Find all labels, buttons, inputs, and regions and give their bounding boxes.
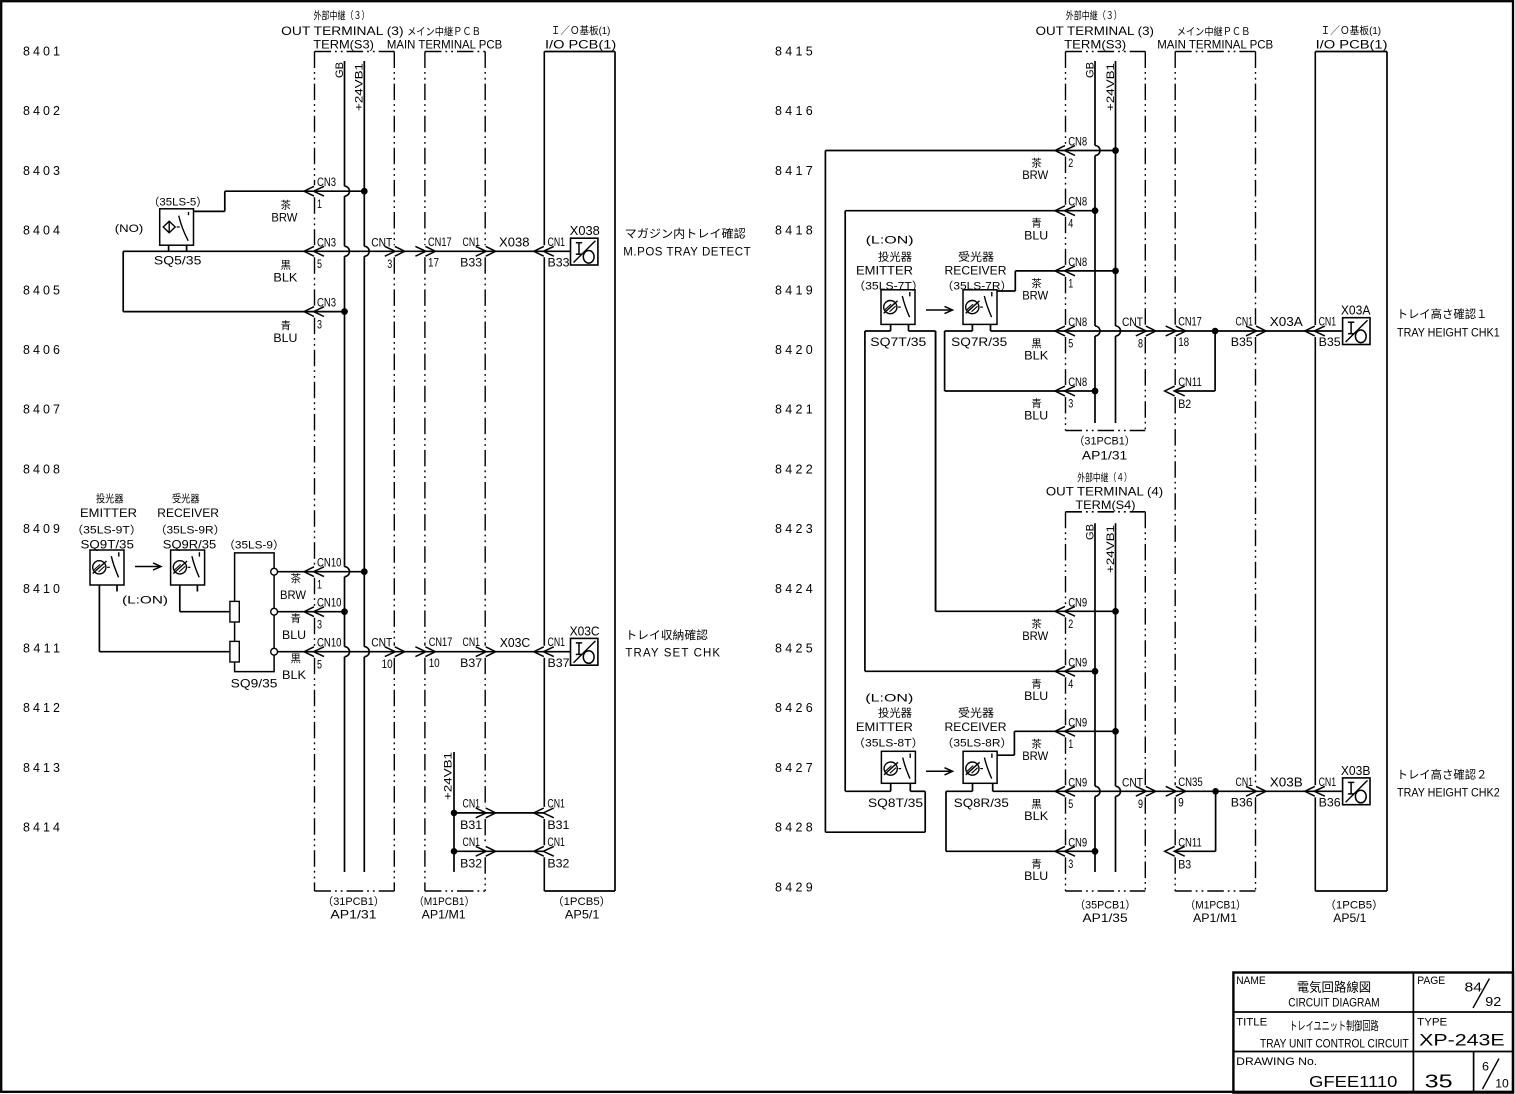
svg-text:B31: B31 [460,818,482,832]
net label X03B wire [1270,776,1303,790]
row label 8420 [775,343,813,357]
block label AP5/1 right [1333,911,1366,925]
connector arrow CN17 pin10 [415,647,435,657]
wire SQ5 BRW to CN3-1 [194,191,365,211]
header I/O PCB kanji right [1321,24,1382,37]
connector arrow CN1 B31 in [534,808,554,818]
net label X03A wire [1270,315,1304,329]
pin SQ5 bottom-right [186,245,188,251]
connector arrow CN1 B37 in [534,647,554,657]
header OUT TERMINAL (4) [1046,485,1163,499]
connector arrow CNT pin9 [1136,786,1156,796]
svg-text:CN1: CN1 [463,635,481,649]
svg-text:10: 10 [382,657,393,671]
svg-text:BLK: BLK [1024,809,1048,823]
splice connector SQ9 blue [230,601,239,622]
net label GB right upper [1084,62,1096,78]
pin label CN1 B37 out [460,635,482,670]
svg-text:TERM(S3): TERM(S3) [313,37,374,51]
wire color label BLK row p4 [1024,798,1048,823]
row label 8424 [775,582,813,596]
svg-text:CN10: CN10 [317,596,342,610]
svg-text:B37: B37 [548,656,570,670]
block OUT TERMINAL(4) TERM(S4) box [1066,512,1146,891]
header I/O PCB(1) right [1316,37,1388,51]
svg-text:TERM(S3): TERM(S3) [1064,37,1126,51]
connector arrow CN8 pin3 [1055,386,1075,396]
svg-text:（35LS-8R）: （35LS-8R） [941,737,1012,750]
svg-text:（31PCB1）: （31PCB1） [1074,435,1136,448]
svg-text:2: 2 [1068,156,1073,170]
svg-text:投光器: 投光器 [878,706,912,720]
pin label CN1 B32 out [460,835,482,871]
connector arrow CN10 pin5 [304,647,324,657]
svg-text:青: 青 [290,612,301,625]
svg-text:3: 3 [317,317,322,331]
svg-text:CN8: CN8 [1068,195,1087,209]
svg-text:CNT: CNT [1122,775,1144,789]
svg-text:EMITTER: EMITTER [856,264,913,278]
svg-text:AP5/1: AP5/1 [1333,911,1366,925]
svg-text:+24VB1: +24VB1 [443,752,455,800]
block label (M1PCB1) right [1185,899,1246,912]
svg-text:OUT TERMINAL (4): OUT TERMINAL (4) [1046,485,1163,499]
pin SQ8R right [992,783,994,791]
I/O port X03A [1343,318,1370,345]
label RECEIVER SQ8R [945,720,1007,734]
svg-text:TERM(S4): TERM(S4) [1075,498,1135,512]
svg-text:CN1: CN1 [1236,315,1254,329]
pin SQ9T right stub [116,585,118,592]
header OUT TERMINAL (3) left [281,24,403,38]
wire SQ9R blue down [180,585,235,612]
svg-text:CN1: CN1 [1236,775,1254,789]
connector arrow CN1 B32 in [534,846,554,856]
block OUT TERMINAL(3) TERM(S3) box right [1066,52,1146,431]
annotation TRAY HEIGHT CHK1 kanji [1397,307,1488,321]
emitter-to-receiver arrow SQ9 [135,563,161,570]
row label 8415 [775,45,813,59]
net line +24VB1 right lower [1112,523,1120,872]
junction dot B32 +24VB1 [451,848,458,855]
pin label CN1 B36 in [1319,775,1341,810]
pin label CN10 pin1 [317,556,342,592]
svg-text:Ｉ／Ｏ基板(1): Ｉ／Ｏ基板(1) [551,24,610,37]
title label TITLE [1236,1016,1267,1028]
svg-text:CN35: CN35 [1178,775,1203,789]
svg-text:DRAWING No.: DRAWING No. [1236,1056,1317,1068]
row label 8403 [23,164,60,178]
junction dot CN8-2 +24VB1 [1112,147,1119,154]
pin label CN17 pin18 [1178,315,1202,350]
svg-text:BRW: BRW [1022,749,1049,763]
svg-text:CN1: CN1 [547,835,565,849]
pin label CN11 B3 [1178,835,1202,871]
svg-text:5: 5 [1068,797,1073,811]
svg-text:CN8: CN8 [1068,255,1087,269]
terminal circle SQ9 pin3 [271,608,278,615]
row label 8408 [23,462,60,476]
svg-text:BLU: BLU [273,331,297,345]
svg-text:（M1PCB1）: （M1PCB1） [1185,899,1246,912]
svg-text:B32: B32 [460,857,482,871]
pin label CNT pin8 [1122,315,1144,351]
header MAIN TERMINAL PCB kanji left [407,25,481,38]
pin label CN1 B32 in [547,835,569,871]
svg-text:AP1/31: AP1/31 [1082,449,1128,463]
label (35LS-7R) [941,279,1012,292]
svg-text:CN9: CN9 [1068,835,1087,849]
junction dot CN3-3 GB [341,308,348,315]
block OUT TERMINAL(3) TERM(S3) box left [315,52,395,892]
I/O port X03B [1343,778,1370,805]
annotation TRAY HEIGHT CHK2 [1397,788,1500,800]
svg-text:CNT: CNT [371,636,393,650]
label (35LS-9R) [155,523,226,536]
svg-text:X038: X038 [499,236,530,250]
svg-text:X03C: X03C [500,636,531,650]
wire color label BLU row q5 [1024,397,1048,423]
junction dot CN9-1 +24VB1 [1112,728,1119,735]
splice connector SQ9 black [230,641,239,662]
svg-text:CN1: CN1 [463,235,481,249]
sensor SQ8T/35 emitter [881,751,915,783]
svg-text:CNT: CNT [1122,315,1144,329]
annotation M.POS TRAY DETECT kanji [625,226,747,240]
label (35LS-9) [223,539,285,552]
connector arrow CN1 B36 in [1305,786,1325,796]
net line GB left [341,61,349,872]
I/O port X03C [571,638,598,665]
label RECEIVER SQ9R [157,506,219,520]
row label 8407 [23,403,60,417]
connector arrow CN17 pin17 [415,246,435,256]
connector arrow CN1 B33 out [476,246,496,256]
svg-text:+24VB1: +24VB1 [354,63,366,111]
svg-text:B35: B35 [1231,335,1253,349]
pin label CN1 B31 out [460,796,482,832]
annotation TRAY SET CHK kanji [625,628,708,642]
svg-text:+24VB1: +24VB1 [1105,525,1117,573]
svg-text:AP1/35: AP1/35 [1083,911,1128,925]
svg-text:（35LS-9R）: （35LS-9R） [155,523,226,536]
label SQ9T/35 [81,538,135,552]
svg-text:I/O PCB(1): I/O PCB(1) [1316,37,1388,51]
svg-text:1: 1 [317,577,322,591]
label SQ8R/35 [954,796,1009,810]
pin label CN1 B35 out [1231,315,1253,350]
wire color label BLK row q4 [1024,338,1048,363]
wire SQ7R BRW up [997,271,1116,291]
net label +24VB1 right lower [1105,525,1117,573]
wire CN8-2 BRW long [825,151,1115,833]
svg-text:B3: B3 [1178,857,1191,871]
svg-text:I/O PCB(1): I/O PCB(1) [545,37,616,51]
svg-text:X03B: X03B [1341,764,1371,778]
pin label CN8 pin1 [1068,255,1087,291]
annotation TRAY HEIGHT CHK1 [1397,327,1500,339]
svg-text:X03B: X03B [1270,776,1303,790]
block label (1PCB5) left [552,895,611,908]
pin label CN8 pin5 [1068,315,1087,351]
wire SQ8R black down [946,850,1095,852]
wire CN3-5 BLK row B [123,250,570,252]
wire SQ7R blue branch [945,331,973,391]
svg-text:受光器: 受光器 [958,250,994,264]
svg-text:SQ8T/35: SQ8T/35 [868,796,923,810]
row label 8414 [23,821,60,835]
wire SQ8T blue feed [845,790,891,792]
label receiver kanji SQ7R [958,250,994,264]
pin label CN3 pin1 [317,175,336,211]
title sheet 35 [1425,1072,1453,1092]
label SQ5/35 [154,254,202,268]
net line GB right lower [1092,523,1100,872]
wire CN9-2 BRW row p1 [936,331,1116,611]
svg-text:（35LS-5）: （35LS-5） [148,196,208,209]
row label 8426 [775,701,813,715]
connector arrow CNT pin10 [385,647,405,657]
svg-text:BRW: BRW [1022,289,1049,303]
block label (35PCB1) [1074,899,1136,912]
svg-text:(L:ON): (L:ON) [866,235,914,247]
svg-text:9: 9 [1138,797,1143,811]
svg-text:B31: B31 [547,818,569,832]
row label 8411 [23,642,60,656]
row label 8421 [775,403,813,417]
wire color label BRW row p3 [1022,737,1049,763]
svg-text:CN3: CN3 [317,296,336,310]
svg-text:SQ8R/35: SQ8R/35 [954,796,1009,810]
svg-text:4: 4 [1068,677,1073,691]
row label 8402 [23,104,60,118]
svg-text:AP1/M1: AP1/M1 [422,907,466,921]
pin label CN9 pin2 [1068,595,1087,631]
title 6 [1482,1060,1489,1074]
junction dot CN9-2 +24VB1 [1112,608,1119,615]
svg-text:CN10: CN10 [317,636,342,650]
header I/O PCB(1) left [545,37,616,51]
connector arrow CN1 B32 out [476,846,496,856]
svg-text:外部中継（３）: 外部中継（３） [314,9,370,22]
svg-text:18: 18 [1178,335,1189,349]
svg-text:CIRCUIT DIAGRAM: CIRCUIT DIAGRAM [1288,996,1379,1010]
connector arrow CN3 pin5 [304,246,324,256]
connector arrow CN35 pin9 [1166,786,1186,796]
pin label CN1 B33 in [548,235,570,270]
pin SQ7T left [890,324,892,331]
sensor SQ5/35 (35LS-5) [160,209,194,245]
svg-text:BRW: BRW [1022,629,1049,643]
junction dot X03A CN11 [1212,328,1219,335]
label (NO) [115,223,144,235]
pin label CN8 pin3 [1068,375,1087,411]
pin label CN3 pin3 [317,296,336,332]
svg-text:CN8: CN8 [1068,375,1087,389]
svg-text:CN1: CN1 [548,235,566,249]
junction dot CN3-1 +24VB1 [361,188,368,195]
svg-text:トレイ高さ確認２: トレイ高さ確認２ [1397,767,1488,781]
svg-text:GB: GB [1084,524,1096,540]
pin label CN9 pin3 [1068,835,1087,871]
wire color label BRW row D [280,572,307,602]
wire CN1 B32 row H [454,850,544,852]
block label AP1/31 right [1082,449,1128,463]
label emitter kanji SQ7T [878,250,912,264]
svg-text:CN3: CN3 [317,235,336,249]
svg-text:BLU: BLU [1024,869,1048,883]
svg-text:トレイ収納確認: トレイ収納確認 [625,628,708,642]
wire color label BRW row p1 [1022,617,1049,643]
svg-text:CN1: CN1 [548,635,566,649]
connector arrow CN10 pin1 [304,567,324,577]
title label PAGE [1417,975,1445,987]
connector arrow CN1 B37 out [476,647,496,657]
header MAIN TERMINAL PCB left [387,37,502,51]
junction dot B31 +24VB1 [451,810,458,817]
row label 8406 [23,343,60,357]
label EMITTER SQ7T [856,264,913,278]
svg-text:B32: B32 [547,857,569,871]
net line +24VB1 right upper [1112,61,1120,423]
connector arrow CN3 pin1 [304,186,324,196]
block label AP1/M1 left [422,907,466,921]
net label +24VB1 main pcb [443,752,455,800]
svg-text:外部中継（４）: 外部中継（４） [1077,471,1132,484]
svg-text:電気回路線図: 電気回路線図 [1297,980,1371,995]
title page slash [1473,979,1490,1009]
pin label CNT pin9 [1122,775,1144,811]
svg-text:1: 1 [317,197,322,211]
svg-text:TITLE: TITLE [1236,1016,1267,1028]
wire SQ9T black down [99,585,234,652]
connector arrow CNT pin3 [385,246,405,256]
pin label CN8 pin4 [1068,195,1087,231]
junction dot CN8-4 GB [1092,207,1099,214]
label X03B [1341,764,1371,778]
svg-text:3: 3 [1068,397,1073,411]
svg-text:BLK: BLK [273,271,297,285]
label (L:ON) SQ9 [122,595,168,607]
svg-text:（M1PCB1）: （M1PCB1） [414,895,475,908]
pin SQ8R left [972,783,974,791]
row label 8416 [775,104,813,118]
svg-text:B35: B35 [1319,335,1341,349]
title label NAME [1236,975,1266,987]
svg-text:3: 3 [1068,857,1073,871]
label emitter kanji SQ8T [878,706,912,720]
label (L:ON) SQ8 [865,693,913,705]
wire SQ8R blue branch [946,791,973,851]
pin label CN17 pin17 [428,235,452,270]
wire CN10-5 BLK row F [274,651,570,653]
block label AP1/35 [1083,911,1128,925]
svg-text:メイン中継ＰＣＢ: メイン中継ＰＣＢ [407,25,481,38]
svg-text:BLU: BLU [1024,228,1048,242]
label X038 [570,224,600,238]
svg-text:EMITTER: EMITTER [856,720,913,734]
svg-text:17: 17 [428,256,439,270]
wire color label BRW row q3 [1022,277,1049,303]
svg-text:(L:ON): (L:ON) [865,693,913,705]
svg-text:CN10: CN10 [317,556,342,570]
label EMITTER SQ9T [80,506,137,520]
block I/O PCB(1) box right [1315,52,1387,892]
svg-text:M.POS TRAY DETECT: M.POS TRAY DETECT [623,246,750,258]
row label 8413 [23,761,60,775]
row label 8429 [775,880,813,894]
row label 8405 [23,283,60,297]
svg-text:84: 84 [1465,980,1483,995]
title page 92 [1485,994,1501,1009]
terminal circle SQ9 pin1 [271,568,278,575]
block label (31PCB1) left [322,895,384,908]
pin SQ7R left [971,324,973,331]
title kanji tray unit [1289,1018,1378,1033]
wire CN11 B2 branch [1175,331,1215,391]
title block frame [1233,973,1513,1093]
row label 8428 [775,821,813,835]
connector arrow CN8 pin5 [1055,326,1075,336]
row label 8412 [23,701,60,715]
label EMITTER SQ8T [856,720,913,734]
pin SQ8T left [890,783,892,791]
label X03C [570,624,600,638]
title sheet slash [1483,1059,1500,1090]
pin label CN1 B31 in [547,796,569,832]
svg-text:CN8: CN8 [1068,135,1087,149]
svg-text:BLU: BLU [1024,409,1048,423]
svg-text:10: 10 [1495,1077,1509,1091]
connector arrow CN9 pin2 [1055,606,1075,616]
svg-text:BLU: BLU [282,628,306,642]
wire color label BLU row q2 [1024,217,1048,243]
row label 8427 [775,761,813,775]
svg-text:TYPE: TYPE [1417,1016,1447,1028]
svg-text:メイン中継ＰＣＢ: メイン中継ＰＣＢ [1177,25,1251,38]
svg-text:XP-243E: XP-243E [1419,1032,1505,1050]
pin label CN1 B36 out [1231,775,1253,810]
sensor SQ7R/35 receiver [963,290,997,325]
pin label CN1 B35 in [1319,315,1341,350]
net label X038 wire [499,236,530,250]
pin SQ7T right [908,324,910,331]
pin label CN9 pin4 [1068,655,1087,691]
header MAIN TERMINAL PCB right [1157,37,1273,51]
row label 8417 [775,164,813,178]
svg-text:CN9: CN9 [1068,595,1087,609]
svg-text:CN1: CN1 [1319,775,1337,789]
svg-text:AP1/31: AP1/31 [330,907,377,921]
title page 84 [1465,980,1483,995]
block label (M1PCB1) left [414,895,475,908]
pin SQ5 bottom-left [168,245,170,251]
pin label CN1 B37 in [548,635,570,670]
label receiver kanji SQ9R [172,492,200,505]
annotation TRAY SET CHK [625,648,720,660]
sensor SQ7T/35 emitter [881,290,915,325]
wire color label BLU row p5 [1024,857,1048,883]
title XP-243E [1419,1032,1505,1050]
svg-text:RECEIVER: RECEIVER [157,506,219,520]
title CIRCUIT DIAGRAM [1288,996,1379,1010]
block label (31PCB1) right [1074,435,1136,448]
row label 8422 [775,462,813,476]
header I/O PCB kanji left [551,24,610,37]
label SQ8T/35 [868,796,923,810]
svg-text:(NO): (NO) [115,223,144,235]
net line +24VB1 main pcb [453,752,455,872]
